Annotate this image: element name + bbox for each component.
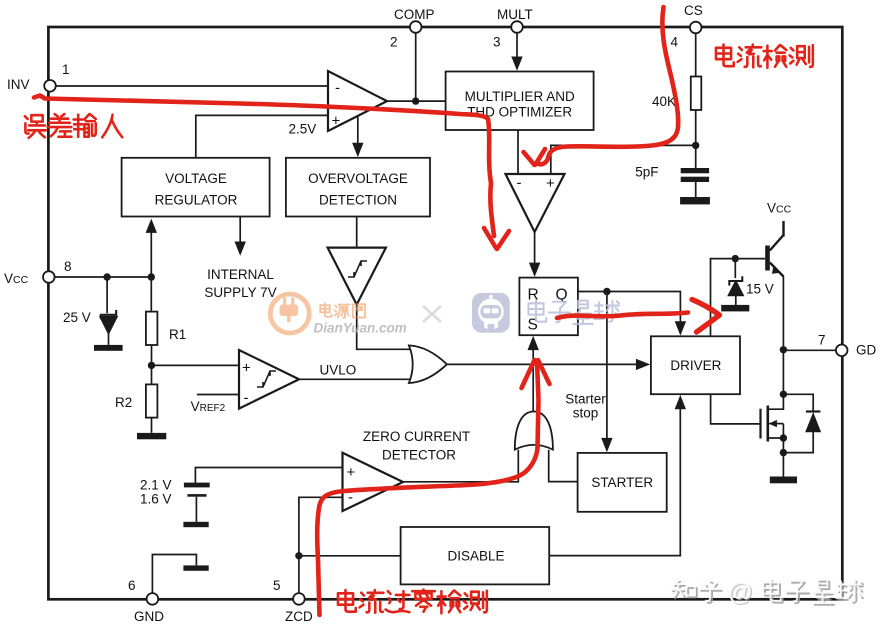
wire gate right input to starter [549,450,578,482]
capacitor 5pF plates [681,168,709,173]
svg-text:-: - [335,80,340,97]
node COMP junction [412,97,419,104]
svg-text:7: 7 [818,333,826,348]
watermark dianzi xingqiu logo [472,293,510,333]
svg-text:R1: R1 [169,327,186,342]
ground below R2 [137,433,166,439]
diode D1 body diode [806,412,821,432]
block DRIVER [651,336,740,394]
svg-text:DISABLE: DISABLE [447,549,504,564]
svg-text:5: 5 [273,578,281,593]
svg-text:OVERVOLTAGE: OVERVOLTAGE [308,171,408,186]
pin 6 GND [147,593,159,605]
wire ZCD reference to comparator [195,468,342,483]
wire multiplier output to CS comparator inverting input [517,130,519,174]
comparator UVLO [239,350,299,409]
watermark DianYuan text [320,303,365,318]
svg-text:ZCD: ZCD [285,609,313,624]
wire 15V zener from base rail [734,259,736,278]
wire 2.5V reference to error amp non-inverting input [196,115,328,157]
block STARTER [578,453,667,512]
wire disable output to driver bottom [549,409,680,556]
wire Vcc rail to 25V zener [106,277,108,313]
wire COMP pin drop to node [415,33,417,101]
CAPS AND GROUNDS [94,168,797,571]
pin 4 CS [690,22,702,34]
wire mosfet body stub [769,423,784,425]
svg-text:25 V: 25 V [63,310,91,325]
resistor R2 [146,384,158,417]
svg-text:REGULATOR: REGULATOR [155,193,238,208]
wire error amp output to multiplier [387,100,446,102]
block DISABLE [401,527,550,584]
wire 40K resistor to CS node [695,110,697,145]
wire starter stop [606,292,608,439]
wire OR gate output to driver [447,363,637,365]
svg-text:MULTIPLIER AND: MULTIPLIER AND [465,89,575,104]
pin 8 Vcc [43,271,55,283]
annotation gate drive line [557,313,688,319]
reference 2.1V/1.6V plate top [184,483,210,488]
node base rail junction [732,255,739,262]
annotation gate drive arrowhead [692,300,720,333]
svg-text:Starter: Starter [565,392,606,407]
svg-text:-: - [244,390,249,407]
arrow internal supply from regulator [235,242,246,256]
svg-text:+: + [242,360,251,377]
node GD junction [780,346,787,353]
svg-text:STARTER: STARTER [591,475,653,490]
svg-text:1.6 V: 1.6 V [140,492,172,507]
wire flip-flop S input from gate [532,350,534,412]
svg-text:R: R [528,287,539,304]
wire 15V zener to ground bar [735,295,737,305]
svg-text:-: - [517,175,522,192]
arrow CS comparator to R input [529,263,540,277]
node drain junction [780,391,787,398]
wire CS comparator non-inverting input to CS node [551,145,696,174]
flip-flop labels R Q S [528,287,568,334]
wire regulator to internal supply arrow [239,217,241,243]
transistor M1 mosfet [761,406,777,442]
comparator current sense U2 [506,174,565,232]
svg-text:DETECTOR: DETECTOR [382,448,456,463]
arrow Q into driver top [675,321,686,335]
svg-text:INV: INV [7,77,30,92]
wire R1 to R2 divider [151,345,153,384]
arrow disable into driver bottom [675,395,686,409]
op-amp error amplifier E/A [328,71,387,131]
node divider junction [148,362,155,369]
gate OR1 [409,345,447,383]
svg-text:ZERO CURRENT: ZERO CURRENT [363,429,470,444]
node CS junction [692,142,699,149]
annotation zcd line [317,362,538,615]
svg-text:SUPPLY 7V: SUPPLY 7V [204,285,276,300]
annotation text error input [25,114,122,138]
node ZCD junction [295,552,302,559]
wire bipolar emitter to GD node [782,276,784,350]
ARROWHEADS [146,57,687,453]
wire body diode branch [783,394,813,452]
hysteresis symbol in UVLO comparator [257,371,276,387]
wire INV pin to error amp inverting input [56,85,328,87]
wire driver to mosfet gate [711,394,760,424]
wire CS comparator output to flip-flop R input [534,232,536,263]
pin 7 GD [836,345,848,357]
svg-text:R2: R2 [115,395,132,410]
arrow MULT into multiplier [511,57,522,71]
svg-text:+: + [546,175,555,192]
wire VREF2 to UVLO comparator [197,394,239,396]
pin 3 MULT [511,21,523,33]
svg-text:GD: GD [856,343,877,358]
watermark DianYuan logo [270,294,309,333]
comparator zero current detector [343,453,404,511]
svg-text:40K: 40K [652,94,676,109]
reference 2.1V/1.6V plate mid [187,494,206,497]
wire Vcc to bipolar collector [783,221,785,229]
reference 2.1V/1.6V plate bottom [183,522,208,527]
zener diode 15V [729,276,743,295]
watermark dianzi xingqiu text [528,300,618,324]
wire ZCD pin to comparator inverting input [299,497,343,593]
wire CS pin to 40K resistor [695,33,697,77]
arrow starter stop into starter [601,438,612,452]
ground below 25V zener [94,345,123,351]
ground below 5pF [680,197,710,204]
node source junction [780,434,787,441]
svg-text:6: 6 [128,578,136,593]
node Vcc zener junction [103,273,110,280]
svg-text:CS: CS [684,3,703,18]
wire divider node to UVLO comparator [152,364,240,366]
svg-text:3: 3 [493,35,501,50]
zener diode 25V [100,310,116,345]
arrow Vcc into voltage regulator [146,219,157,233]
wire error amp output to overvoltage detection [357,117,359,145]
wire ZCD comparator output to gate left input [403,450,518,482]
node source diode junction [780,449,787,456]
hysteresis symbol in OVD comparator [348,261,367,277]
gate OR2 set input [515,412,553,450]
pin 1 INV [44,80,56,92]
wire GD node to mosfet drain [769,350,784,409]
svg-text:VREF2: VREF2 [191,399,226,414]
flip-flop RS latch U4 [519,278,578,336]
svg-text:DRIVER: DRIVER [670,358,721,373]
svg-text:5pF: 5pF [635,165,658,180]
internal ground near GND pin [183,565,208,570]
svg-text:MULT: MULT [497,7,533,22]
svg-text:1: 1 [62,62,70,77]
wire driver to bipolar base rail [711,259,766,337]
svg-text:4: 4 [671,35,679,50]
svg-text:stop: stop [573,406,599,421]
svg-text:INTERNAL: INTERNAL [207,267,274,282]
svg-text:VOLTAGE: VOLTAGE [165,171,227,186]
comparator overvoltage hysteresis U3 [328,248,386,305]
block VOLTAGE REGULATOR [122,158,270,217]
wire MULT pin into multiplier block [516,33,518,58]
svg-text:2: 2 [390,35,398,50]
annotation text zero current detection [338,590,487,614]
BLOCKS [122,72,740,585]
svg-text:VCC: VCC [4,271,29,286]
block OVERVOLTAGE DETECTION [286,158,430,217]
annotation error input line [34,96,494,237]
wire Q output to driver top [578,292,681,323]
resistor R1 [146,312,158,345]
wire GD node to GD pin [783,349,836,351]
pin 2 COMP [410,21,422,33]
wire 5pF capacitor to ground [695,182,697,197]
wire R2 to ground [151,418,153,433]
svg-text:+: + [332,113,341,130]
svg-text:GND: GND [134,609,164,624]
svg-text:+: + [347,464,356,481]
pin 5 ZCD [293,593,305,605]
wire OVD comparator output to OR gate [357,305,412,350]
wire overvoltage detection block to hysteresis comparator [356,217,358,248]
arrow into overvoltage detection [352,143,363,157]
annotation text current detection [716,45,813,68]
annotation current sense arrowhead [524,149,546,165]
wire mosfet source stub [769,437,784,439]
wire Vcc rail up to voltage regulator and down to R1 [150,232,152,311]
svg-text:COMP: COMP [394,7,435,22]
arrow gate to S input [528,336,539,350]
wire GND pin to internal ground [152,555,196,594]
watermark zhihu bottom right highlight [671,579,861,603]
annotation zcd arrowhead [522,360,550,388]
node Vcc R1 junction [148,273,155,280]
svg-text:2.1 V: 2.1 V [140,478,172,493]
svg-text:15 V: 15 V [746,282,774,297]
annotation current sense line [538,7,679,164]
arrow OR gate into driver [636,359,650,370]
svg-text:2.5V: 2.5V [289,122,317,137]
block MULTIPLIER AND THD OPTIMIZER [446,72,594,131]
wire ZCD node to disable block [299,555,401,557]
svg-text:8: 8 [64,259,72,274]
svg-text:DianYuan.com: DianYuan.com [314,321,407,336]
wire mosfet source down [782,424,784,477]
svg-text:@: @ [728,579,753,607]
ground below 15V zener [721,305,749,312]
wire Vcc pin rail [55,276,152,278]
watermark zhihu bottom right shadow [673,581,863,605]
resistor 40K [691,77,702,111]
RED ANNOTATIONS [34,7,720,615]
ground below mosfet source [770,477,797,484]
svg-text:UVLO: UVLO [320,363,357,378]
annotation error input arrowhead [484,228,509,249]
svg-text:VCC: VCC [767,201,792,216]
wire CS node to 5pF capacitor [695,145,697,168]
watermark cross mark [423,306,441,322]
node Q output junction [603,288,610,295]
wire UVLO output to OR gate [299,378,412,380]
wire reference mid plate to bottom plate [195,497,197,522]
transistor Q1 npn [765,221,783,277]
svg-text:DETECTION: DETECTION [319,193,397,208]
